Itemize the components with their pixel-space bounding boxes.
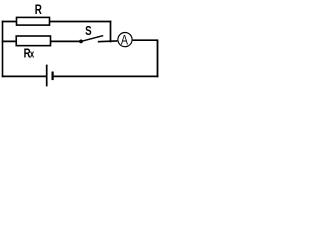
svg-text:x: x: [30, 48, 35, 59]
svg-text:A: A: [121, 32, 129, 48]
svg-text:S: S: [85, 25, 92, 39]
svg-text:R: R: [35, 1, 43, 17]
